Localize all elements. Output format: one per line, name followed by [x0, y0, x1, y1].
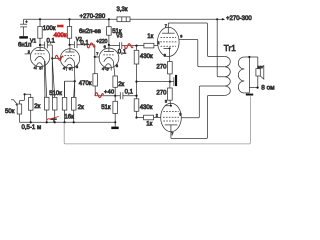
wire V2 grid horizontal: [52, 57, 60, 59]
node V1 anode: [39, 44, 41, 46]
wire cathode mid link: [137, 81, 174, 83]
node anode V3: [108, 44, 110, 46]
transformer Tr1 secondary: [238, 57, 244, 93]
node grid upper output: [135, 45, 137, 47]
svg-text:7: 7: [171, 132, 173, 136]
svg-text:+: +: [25, 20, 28, 24]
wire 470k to node: [95, 95, 115, 97]
svg-text:0,1: 0,1: [125, 89, 134, 95]
annotation squiggle output grid: [125, 44, 134, 49]
svg-text:430к: 430к: [140, 54, 153, 60]
svg-text:2к: 2к: [78, 105, 84, 111]
resistor 430k lower: [134, 99, 139, 112]
svg-text:3: 3: [76, 65, 78, 69]
annotation squiggle V3 link: [87, 43, 95, 48]
svg-text:50к: 50к: [5, 109, 15, 115]
resistor 2k second: [72, 97, 77, 110]
node +40: [114, 95, 116, 97]
wire secondary vertical: [248, 57, 250, 93]
svg-text:+270-300: +270-300: [226, 16, 252, 22]
annotation squiggle +40: [95, 93, 104, 98]
resistor R1 100k: [39, 19, 41, 26]
svg-text:2: 2: [156, 113, 158, 117]
node rail-51k: [108, 18, 110, 20]
svg-text:4: 4: [34, 66, 36, 70]
svg-text:8: 8: [116, 64, 118, 68]
node rail-R2: [68, 18, 70, 20]
transformer Tr1 primary: [225, 56, 231, 95]
capacitor C-filter top-left: [23, 19, 25, 24]
speaker BA1: [257, 57, 259, 69]
wire 16k link: [74, 81, 76, 97]
wire lower anode to transformer: [171, 95, 225, 138]
wire V3 grid drop: [94, 45, 96, 57]
capacitor bypass electrolytic: [173, 77, 175, 86]
node rail-R1: [39, 18, 41, 20]
resistor R2 anode V2: [69, 19, 71, 26]
ground filter-cap: [19, 36, 28, 38]
node mid divider: [135, 81, 137, 83]
capacitor C3 0,1 coupling V3-output: [109, 45, 144, 47]
svg-text:9: 9: [180, 35, 182, 39]
svg-text:2к: 2к: [118, 82, 124, 88]
wire secondary bottom: [244, 92, 249, 94]
svg-text:5: 5: [39, 67, 41, 71]
svg-text:0,1: 0,1: [118, 49, 127, 55]
potentiometer 50k: [17, 104, 22, 114]
svg-text:5': 5': [69, 67, 72, 71]
resistor 2k first: [29, 98, 34, 111]
ground secondary: [246, 94, 253, 96]
tube V1 triode: [30, 47, 49, 66]
resistor 2k V3 cathode: [113, 76, 118, 87]
svg-text:51к: 51к: [101, 105, 111, 111]
wire grid leak jog: [25, 94, 31, 97]
annotation squiggle V2 grid: [55, 55, 63, 60]
svg-text:100к: 100к: [43, 26, 56, 32]
capacitor 0,1 at +40: [115, 95, 136, 97]
svg-text:470к: 470к: [79, 81, 92, 87]
svg-text:6н1п: 6н1п: [18, 42, 31, 48]
capacitor C1 0,1 coupling V1-V2: [40, 44, 52, 46]
svg-text:6н2п-ев: 6н2п-ев: [79, 29, 101, 35]
svg-text:2к: 2к: [34, 104, 40, 110]
svg-text:V3: V3: [116, 33, 122, 39]
svg-text:V2: V2: [76, 37, 82, 43]
ground old crossed: [53, 120, 55, 123]
tube V3 triode: [99, 48, 119, 68]
svg-text:2: 2: [28, 50, 30, 54]
resistor R 3.3k: [117, 17, 130, 22]
node rail-B+: [216, 18, 218, 20]
svg-text:1к: 1к: [147, 34, 153, 40]
resistor 430k upper: [136, 46, 138, 51]
svg-text:510к: 510к: [49, 91, 62, 97]
svg-text:3: 3: [165, 100, 167, 104]
resistor 510k first: [45, 97, 50, 110]
svg-text:Tr1: Tr1: [224, 44, 236, 53]
wire V2 grid drop: [51, 45, 53, 97]
svg-text:7: 7: [165, 24, 167, 28]
node 51k rail: [114, 121, 116, 123]
resistor 510k second: [53, 97, 58, 110]
svg-text:16к: 16к: [64, 115, 74, 121]
tube VL2 output pentode lower: [161, 103, 182, 131]
wire B+ rail left: [24, 18, 117, 20]
red annotations group: [47, 24, 133, 121]
wire B+ rail right: [130, 18, 217, 20]
ground 51k: [111, 127, 118, 130]
resistor R 51k anode V3: [108, 19, 110, 26]
resistor 470k: [94, 57, 96, 74]
svg-text:3: 3: [164, 54, 166, 58]
svg-text:8 ом: 8 ом: [261, 84, 274, 91]
svg-text:0,5-1 м: 0,5-1 м: [22, 125, 42, 131]
annotation strike ground: [47, 117, 59, 121]
resistor 16k: [62, 97, 67, 110]
svg-text:270: 270: [156, 90, 167, 96]
wire upper anode to transformer: [168, 23, 224, 57]
svg-text:+220: +220: [96, 39, 107, 45]
node grid lower output: [135, 116, 137, 118]
resistor 270 upper: [168, 62, 173, 74]
wire V3 grid horizontal: [95, 56, 99, 58]
svg-text:0,1: 0,1: [47, 39, 56, 45]
wire bottom rail: [19, 121, 115, 123]
node cap link: [135, 95, 137, 97]
svg-text:6: 6: [104, 45, 106, 49]
wire upper screen UL tap: [179, 39, 225, 66]
svg-text:+40: +40: [104, 90, 114, 96]
node V1 grid leak: [24, 93, 26, 95]
node V2 anode: [68, 44, 70, 46]
resistor 51k lower: [113, 101, 118, 113]
svg-text:270: 270: [156, 64, 167, 70]
svg-text:сом: сом: [57, 24, 63, 28]
node V2 grid: [51, 57, 53, 59]
node cathode junction: [169, 81, 171, 83]
svg-text:+270-280: +270-280: [80, 14, 106, 20]
resistor 270 lower: [168, 88, 173, 100]
node 470k top: [94, 56, 96, 58]
svg-text:430к: 430к: [140, 105, 153, 111]
tube VL1 output pentode upper: [158, 27, 180, 56]
tube V2 triode: [60, 49, 79, 68]
capacitor C2 0,1 coupling V2-V3: [70, 44, 95, 46]
svg-text:ВА1: ВА1: [257, 65, 263, 69]
svg-text:9: 9: [179, 113, 181, 117]
svg-text:4': 4': [63, 67, 66, 71]
svg-text:3,3к: 3,3к: [117, 7, 128, 13]
svg-text:5': 5': [106, 67, 109, 71]
wire secondary top: [244, 56, 257, 58]
svg-text:400к: 400к: [54, 33, 67, 39]
svg-text:4': 4': [102, 67, 105, 71]
wire B+ drop to center tap: [217, 19, 225, 77]
wire lower screen UL tap: [181, 86, 224, 118]
resistor 1k upper grid stopper: [144, 43, 154, 48]
svg-text:7: 7: [96, 52, 98, 56]
svg-text:1к: 1к: [146, 121, 152, 127]
resistor 1k lower grid stopper: [137, 117, 144, 119]
terminal +270-300 arrow: [217, 18, 222, 20]
frame faint: [64, 96, 250, 143]
